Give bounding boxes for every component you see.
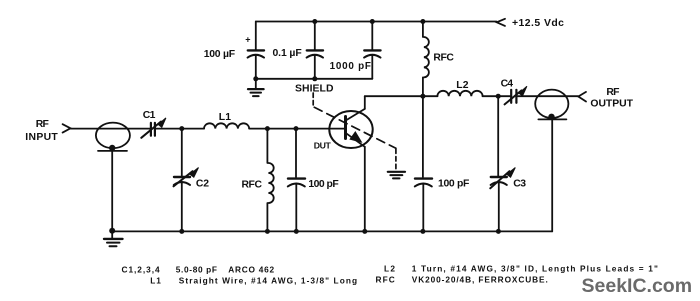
svg-text:RFC: RFC (242, 180, 263, 191)
capacitor 100uF (255, 22, 257, 50)
capacitor 0.1uF (314, 22, 316, 50)
inductor RFC (input side) (266, 129, 268, 163)
node ground-emitter junction (362, 229, 367, 234)
svg-text:INPUT: INPUT (25, 132, 58, 143)
svg-text:1 Turn, #14 AWG, 3/8" ID, Leng: 1 Turn, #14 AWG, 3/8" ID, Length Plus Le… (412, 264, 659, 274)
watermark SeekIC.com (582, 275, 693, 297)
svg-text:SeekIC.com: SeekIC.com (582, 275, 693, 297)
node ground-100pF junction (294, 229, 299, 234)
svg-text:+: + (245, 34, 250, 44)
ground (cap bank) (255, 79, 257, 89)
svg-text:Straight Wire, #14 AWG, 1-3/8": Straight Wire, #14 AWG, 1-3/8" Long (179, 276, 358, 286)
svg-text:C1,2,3,4: C1,2,3,4 (122, 265, 161, 275)
svg-text:C2: C2 (196, 179, 209, 190)
svg-text:100 pF: 100 pF (308, 179, 338, 190)
output arrow (578, 92, 586, 102)
label RF OUTPUT (590, 87, 633, 110)
wire shield dashed (313, 93, 396, 171)
node ground-C3 junction (496, 229, 501, 234)
capacitor 100pF (input side) (295, 129, 297, 177)
capacitor C4 (510, 90, 512, 103)
inductor L2 (437, 91, 482, 96)
node rail-1000pF junction (370, 19, 375, 24)
wire collector rail (365, 95, 438, 97)
capacitor 1000pF (371, 22, 373, 50)
svg-text:L1: L1 (219, 112, 231, 123)
node collector-C3 junction (496, 94, 501, 99)
wire input ground drop (111, 151, 113, 231)
ground (shield) (388, 171, 405, 173)
output connector J2 (535, 90, 568, 118)
supply arrow (497, 19, 505, 26)
node rail-RFC junction (420, 19, 425, 24)
label RF INPUT (25, 119, 58, 143)
node base-C2 junction (179, 126, 184, 131)
input arrow (63, 124, 71, 132)
svg-text:RFC: RFC (433, 52, 454, 63)
svg-text:RF: RF (36, 119, 49, 130)
svg-text:L2: L2 (384, 264, 396, 274)
svg-text:C1: C1 (143, 110, 156, 121)
svg-text:RF: RF (606, 87, 619, 98)
node bank-shield junction (312, 76, 317, 81)
svg-text:5.0-80 pF: 5.0-80 pF (176, 265, 218, 275)
node ground-input junction (109, 228, 115, 234)
svg-text:1000 pF: 1000 pF (330, 61, 372, 72)
svg-text:100 pF: 100 pF (438, 178, 469, 189)
svg-text:DUT: DUT (314, 140, 332, 150)
svg-text:100 µF: 100 µF (204, 49, 235, 60)
wire emitter drop (364, 147, 366, 232)
node ground-RFC junction (265, 229, 270, 234)
svg-text:SHIELD: SHIELD (295, 83, 334, 94)
node rail-0.1uF junction (312, 19, 317, 24)
input connector J1 (96, 123, 130, 149)
capacitor 100pF (output side) (422, 96, 424, 177)
ground (main) (111, 231, 113, 238)
svg-text:ARCO 462: ARCO 462 (228, 265, 275, 275)
svg-text:L1: L1 (150, 276, 161, 286)
wire +12.5V top rail (256, 21, 497, 23)
transistor Q1 DUT (329, 111, 372, 148)
capacitor C3 (497, 96, 499, 176)
wire output ground drop (551, 119, 553, 231)
label SHIELD (295, 83, 334, 94)
svg-text:VK200-20/4B, FERROXCUBE.: VK200-20/4B, FERROXCUBE. (412, 275, 549, 285)
node ground-100pF(out) junction (420, 229, 425, 234)
node ground-C2 junction (179, 229, 184, 234)
label +12.5 Vdc (512, 18, 564, 29)
notes column right (376, 264, 660, 285)
svg-text:0.1 µF: 0.1 µF (273, 48, 302, 59)
node bank-ground junction (253, 76, 258, 81)
wire ground bottom rail (112, 230, 552, 232)
inductor L1 (204, 123, 249, 128)
capacitor C1 (150, 123, 152, 136)
svg-text:C3: C3 (513, 179, 526, 190)
node base-100pF junction (294, 126, 299, 131)
svg-text:C4: C4 (501, 79, 514, 90)
wire collector riser (364, 96, 366, 109)
wire main base line (71, 128, 151, 130)
capacitor C2 (181, 129, 183, 177)
svg-text:RFC: RFC (376, 275, 396, 285)
notes column left (122, 265, 359, 286)
svg-text:L2: L2 (456, 80, 468, 91)
node collector-RFC junction (420, 94, 425, 99)
node base-RFC junction (265, 126, 270, 131)
svg-text:OUTPUT: OUTPUT (590, 99, 633, 110)
wire cap-bank bottom rail (256, 78, 372, 80)
svg-text:+12.5 Vdc: +12.5 Vdc (512, 18, 564, 29)
inductor RFC (supply) (422, 22, 424, 38)
